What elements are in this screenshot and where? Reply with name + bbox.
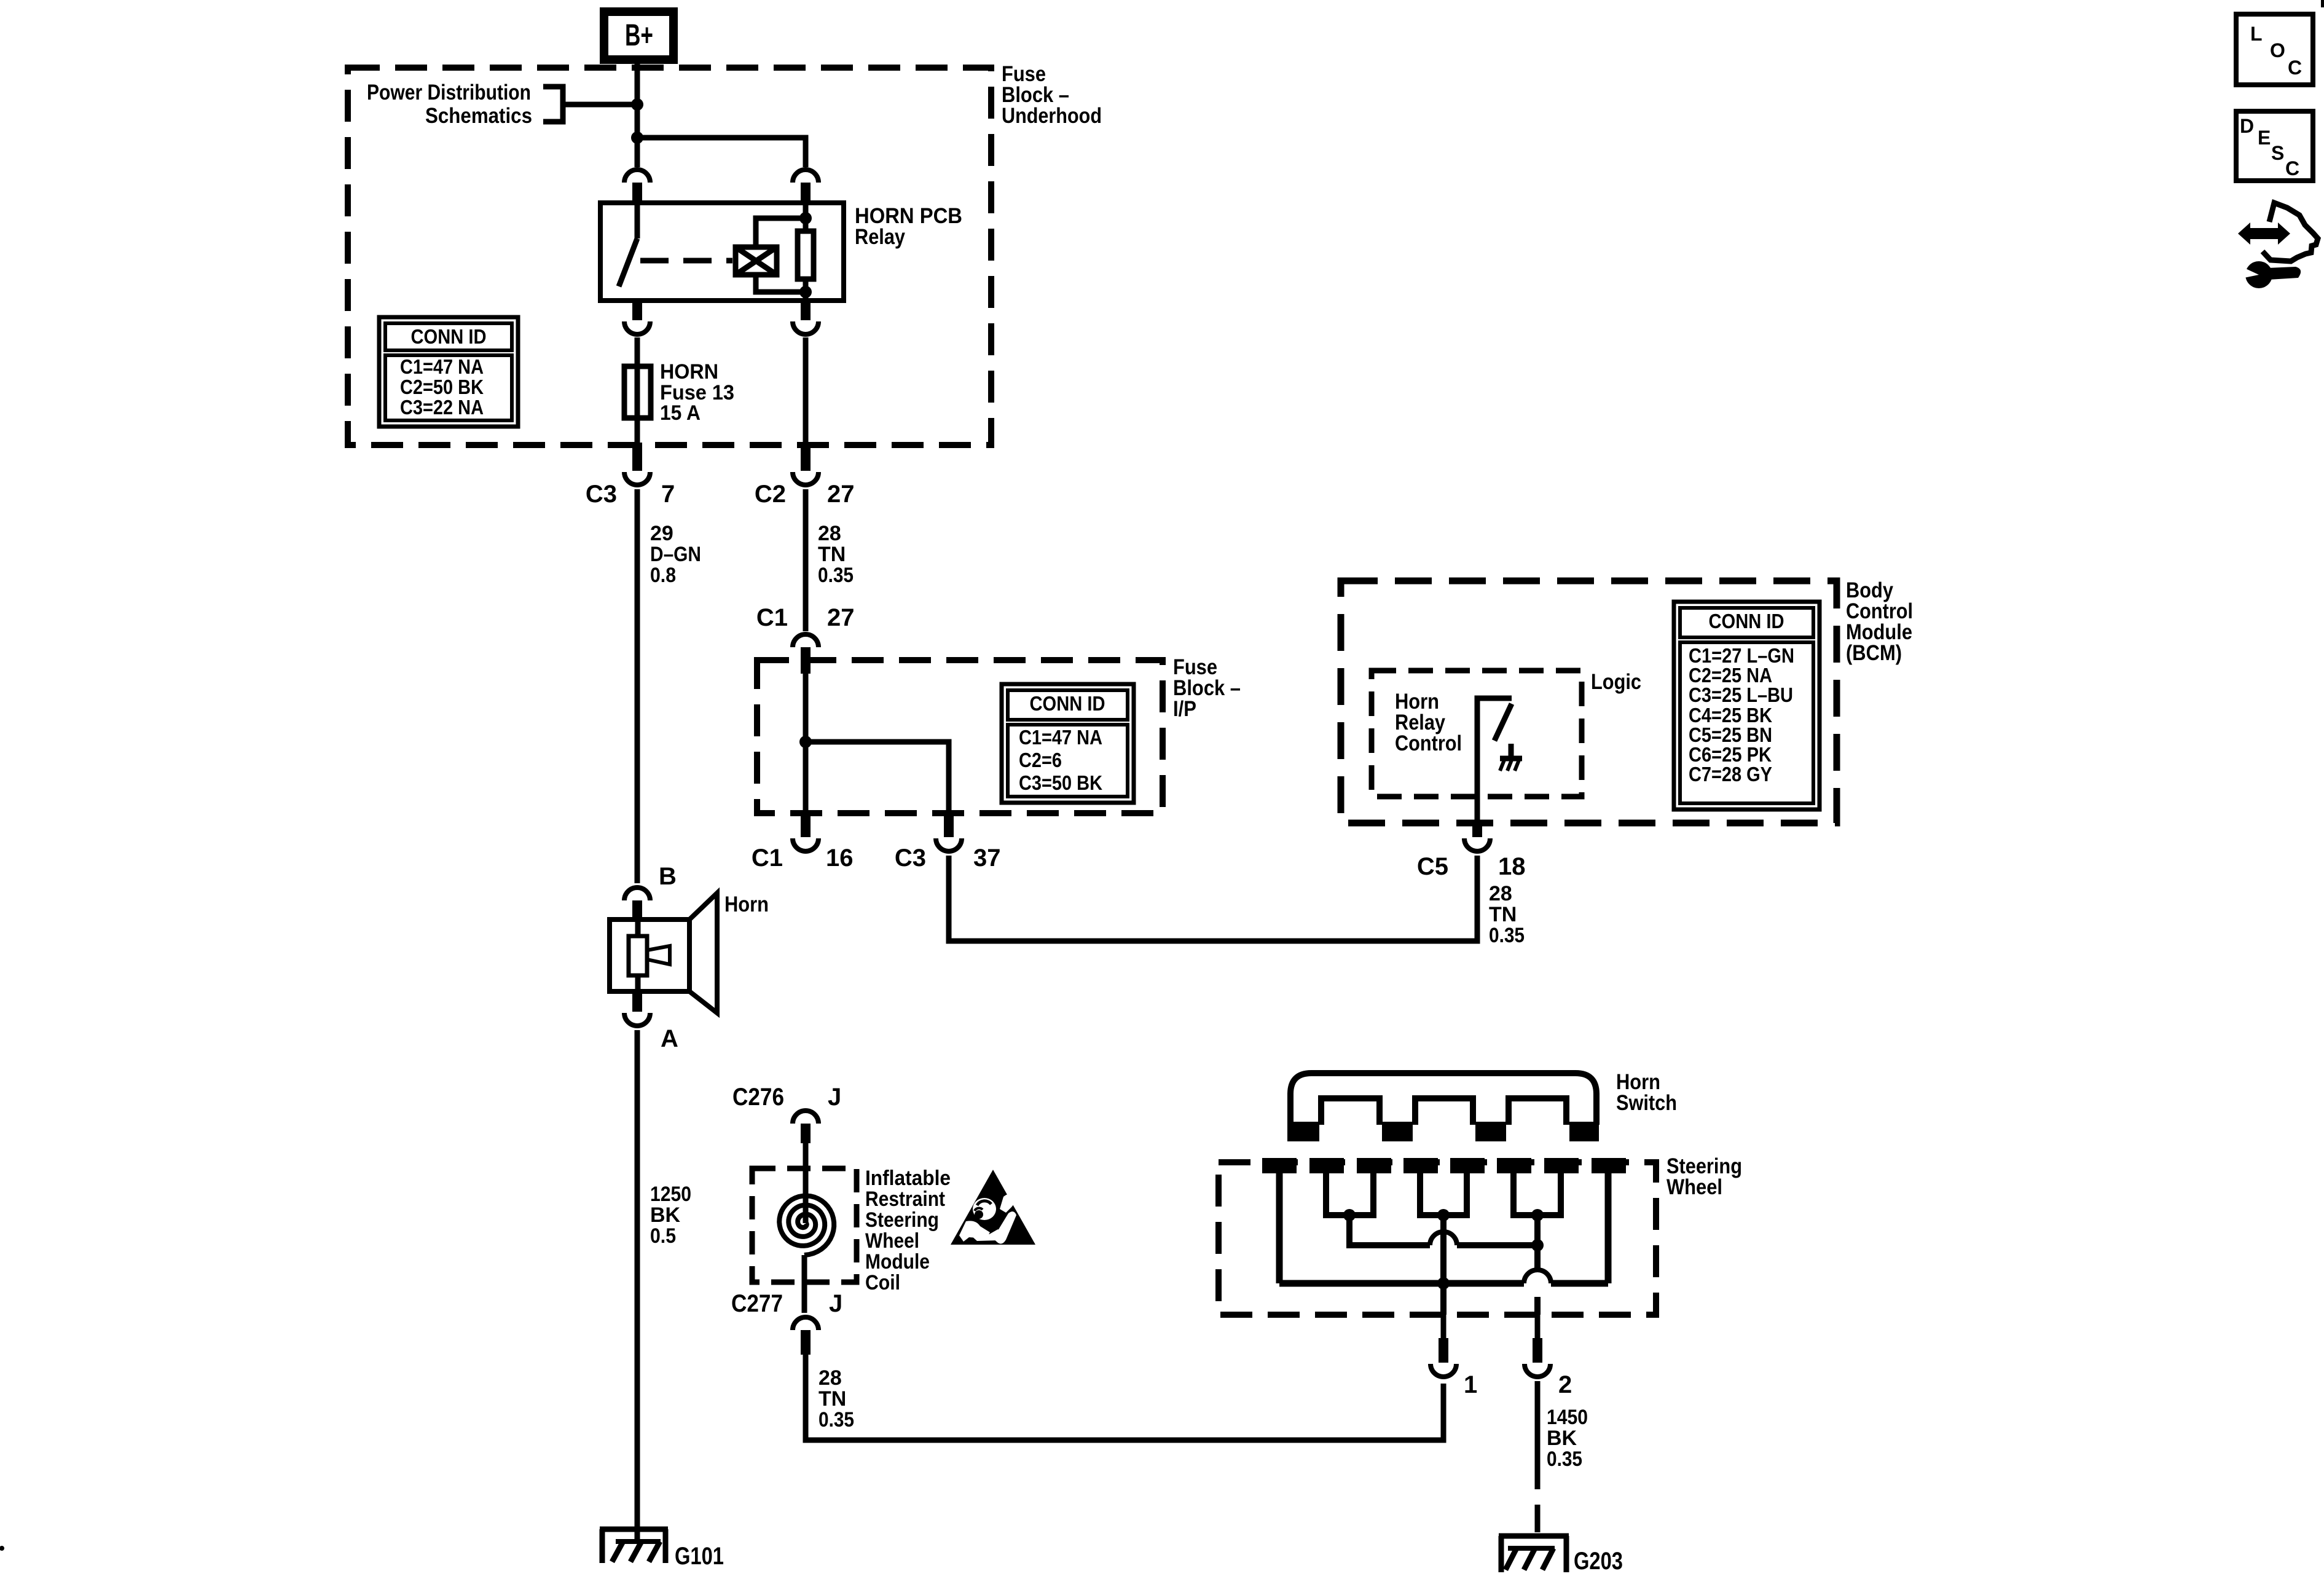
svg-text:C3=22 NA: C3=22 NA [400,396,484,419]
svg-text:Logic: Logic [1591,670,1641,694]
svg-text:CONN ID: CONN ID [411,325,487,348]
relay coil suppression resistor [798,231,814,279]
svg-text:C: C [2285,157,2299,179]
svg-text:C2=6: C2=6 [1019,749,1062,771]
warning symbol SRS airbag triangle [951,1170,1035,1245]
wire into coil [803,1143,809,1223]
relay HORN PCB Relay box [600,203,844,301]
label Fuse Block I/P [1173,655,1241,721]
svg-text:15 A: 15 A [660,401,701,425]
svg-text:Relay: Relay [855,225,905,249]
label Body Control Module (BCM) [1846,578,1913,665]
svg-text:C2=50 BK: C2=50 BK [400,376,484,398]
wire 1450 BK 0.35 to G203 [1535,1381,1541,1462]
svg-text:0.35: 0.35 [819,1408,854,1431]
svg-text:BK: BK [650,1203,681,1227]
svg-text:C5: C5 [1417,853,1448,880]
horn sounder symbol [610,893,717,1013]
wire upper bus with hop [1349,1215,1537,1245]
wire 28 TN 0.35 C2 to C1 [803,489,809,631]
label C2 27 [755,481,855,508]
svg-text:Underhood: Underhood [1002,104,1102,128]
wire B+ to relay coil/contact feed [635,60,640,167]
value label circuit 1450 BK 0.35 [1547,1406,1588,1471]
svg-text:Wheel: Wheel [865,1229,919,1253]
svg-text:L: L [2250,23,2263,45]
connector C276 pin J [793,1111,819,1143]
ground G101 [600,1529,668,1563]
label Fuse Block Underhood [1002,62,1102,128]
svg-text:B: B [659,863,677,890]
svg-text:C3=50 BK: C3=50 BK [1019,771,1102,794]
icon LOC box [2236,14,2313,85]
svg-text:C7=28 GY: C7=28 GY [1689,763,1772,786]
svg-text:C3: C3 [586,481,617,508]
wire bracket to B+ feed [563,102,637,108]
power node B+ [604,12,673,60]
svg-text:CONN ID: CONN ID [1030,692,1105,715]
svg-text:O: O [2270,39,2285,61]
node I/P branch junction [799,736,812,748]
wire fuse to C3 [635,418,640,444]
stray mark bottom left [0,1546,4,1551]
svg-text:Coil: Coil [865,1271,900,1294]
label Horn Switch [1616,1070,1677,1115]
svg-text:27: 27 [827,604,855,631]
wire resistor bottom leg [803,279,809,301]
svg-text:I/P: I/P [1173,697,1196,721]
svg-text:28: 28 [1489,882,1512,905]
svg-text:Wheel: Wheel [1666,1175,1722,1199]
node lower bus to pin1 drop [1437,1277,1450,1290]
svg-text:D–GN: D–GN [650,543,701,566]
svg-text:C1: C1 [756,604,788,631]
label Steering Wheel [1666,1154,1742,1199]
hop over wire 2 [1524,1270,1551,1283]
svg-text:7: 7 [661,481,675,508]
svg-text:C1=47 NA: C1=47 NA [1019,726,1102,749]
label HORN PCB Relay [855,204,962,249]
svg-text:Steering: Steering [865,1208,939,1232]
fuse HORN Fuse 13 15A [624,366,651,418]
label C3 37 [895,845,1001,872]
label C3 7 [586,481,675,508]
svg-text:C3=25 L–BU: C3=25 L–BU [1689,683,1793,706]
horn switch contact bar [1287,1073,1599,1141]
svg-text:C1=47 NA: C1=47 NA [400,355,484,378]
svg-text:BK: BK [1547,1427,1577,1450]
svg-text:29: 29 [650,522,673,545]
connector C1 pin 27 into IP fuse block [793,634,819,674]
connector relay pin 30 (top left) [624,170,650,204]
node junction relay feed branch [631,132,643,144]
svg-text:1450: 1450 [1547,1406,1588,1429]
body control module dashed boundary [1341,581,1837,823]
svg-text:S: S [2271,142,2284,164]
svg-text:B+: B+ [625,18,653,52]
svg-text:C1: C1 [752,845,783,872]
svg-text:C2: C2 [755,481,786,508]
wire coil top link [756,218,806,247]
wire 1250 BK 0.5 horn to G101 [635,1030,640,1540]
relay switch contact [619,204,637,286]
svg-text:1: 1 [1464,1371,1477,1398]
svg-text:28: 28 [818,522,841,545]
wire C277 run to steering wheel pin 1 [806,1355,1443,1440]
connector steering wheel pin 1 [1431,1315,1456,1377]
svg-text:HORN: HORN [660,360,718,384]
wire branch to relay coil side [637,138,806,167]
connector C3 pin 7 [624,443,650,485]
svg-text:C276: C276 [732,1084,784,1111]
bracket Power Distribution reference [543,87,563,122]
wire I/P branch to C3/37 [806,742,949,813]
inductor clockspring coil spiral [779,1196,834,1256]
wire pad8 stem [1605,1173,1612,1283]
label C276 J [732,1084,841,1111]
svg-text:2: 2 [1558,1371,1572,1398]
svg-text:C3: C3 [895,845,926,872]
svg-text:Power Distribution: Power Distribution [367,81,531,104]
value label circuit 29 D-GN 0.8 [650,522,701,587]
connector block CONN ID BCM [1674,602,1820,809]
label Power Distribution Schematics [367,81,532,128]
connector C1 pin 16 [793,812,819,851]
value label circuit 28 TN 0.35 (BCM) [1489,882,1525,947]
icon DESC box [2236,111,2313,181]
wire pin2 drop with hop over lower bus [1534,1215,1541,1315]
wire relay85 down to C2 [803,337,809,444]
svg-text:Module: Module [865,1250,930,1274]
connector block CONN ID underhood [379,317,518,427]
logic block dashed boundary [1372,671,1582,797]
wire pin1 drop [1440,1215,1447,1315]
connector steering wheel pin 2 [1525,1315,1550,1377]
wire relay to fuse [635,337,640,366]
svg-text:J: J [828,1084,841,1111]
svg-text:27: 27 [827,481,855,508]
svg-text:CONN ID: CONN ID [1709,610,1784,632]
wire pad1 stem [1276,1173,1283,1283]
wire out of coil [802,1255,807,1313]
svg-text:TN: TN [819,1387,846,1411]
steering wheel dashed boundary [1219,1162,1656,1315]
svg-text:G203: G203 [1574,1548,1623,1575]
value label circuit 1250 BK 0.5 [650,1183,691,1248]
svg-text:18: 18 [1498,853,1526,880]
svg-text:0.35: 0.35 [1489,924,1525,947]
svg-text:0.35: 0.35 [1547,1447,1582,1471]
node relay coil/resistor bottom junction [799,286,812,298]
wire pads 2+3 pair [1326,1173,1373,1215]
hop over wire 1 [1430,1232,1457,1245]
svg-text:TN: TN [1489,903,1517,926]
node pads 6+7 junction [1531,1209,1544,1221]
label C1 27 [756,604,855,631]
svg-text:16: 16 [826,845,854,872]
fuse block underhood dashed boundary [348,68,991,445]
svg-text:Switch: Switch [1616,1091,1677,1115]
page edge mark [2321,0,2324,7]
label Horn Relay Control [1395,690,1462,755]
svg-text:D: D [2240,115,2254,137]
relay coil (box with X) [736,247,777,275]
wire relay internal right leg [803,204,809,231]
node relay coil/resistor top junction [799,212,812,224]
node junction power-distribution tap [631,98,643,111]
node pads 2+3 junction [1343,1209,1356,1221]
steering wheel slip contacts (8 pads) [1262,1158,1626,1173]
wire dashed continuation to G203 [1535,1462,1541,1548]
label Inflatable Restraint Steering Wheel Module Coil [865,1167,951,1294]
wire C3/37 run to BCM C5 [949,856,1477,941]
fuse block I/P dashed boundary [757,660,1163,813]
svg-text:C: C [2288,57,2302,79]
svg-text:(BCM): (BCM) [1846,641,1902,665]
connector relay pin 87 (bottom left) [624,299,650,334]
svg-text:1250: 1250 [650,1183,691,1206]
svg-text:28: 28 [819,1366,842,1390]
connector C5 pin 18 [1464,822,1490,851]
connector block CONN ID I/P [1002,684,1134,803]
connector relay pin 85 (bottom right) [793,299,819,334]
wire 29 D-GN 0.8 to horn [635,489,640,883]
connector horn terminal A [624,990,650,1026]
relay actuation dashed link [640,258,732,264]
value label circuit 28 TN 0.35 (upper) [818,522,854,587]
svg-text:0.35: 0.35 [818,564,854,587]
icon component locator (arrow + part + wrench) [2238,203,2318,288]
wire I/P internal bus [803,674,809,813]
svg-text:0.5: 0.5 [650,1224,676,1248]
svg-text:Schematics: Schematics [425,104,532,128]
svg-text:0.8: 0.8 [650,564,676,587]
svg-text:Inflatable: Inflatable [865,1167,951,1190]
value label circuit 28 TN 0.35 (coil) [819,1366,854,1431]
connector horn terminal B [624,888,650,921]
SRS steering wheel module coil dashed boundary [752,1168,857,1282]
node pads 4+5 junction [1437,1209,1450,1221]
label C277 J [731,1290,842,1317]
svg-text:Horn: Horn [724,892,769,916]
svg-text:C277: C277 [731,1290,783,1317]
transistor driver horn relay control switch [1477,698,1522,823]
label C1 16 [752,845,854,872]
wire lower bus [1279,1280,1608,1287]
svg-text:TN: TN [818,543,846,566]
ground G203 [1499,1536,1569,1572]
svg-text:J: J [829,1290,842,1317]
connector C3 pin 37 [936,812,962,851]
node upper bus to pin2 drop [1531,1239,1544,1251]
wire coil bottom link [756,275,806,292]
svg-text:G101: G101 [675,1543,724,1570]
label HORN Fuse 13 15 A [660,360,734,425]
connector C2 pin 27 [793,443,819,485]
svg-text:E: E [2258,127,2271,149]
svg-text:Control: Control [1395,731,1462,755]
svg-text:A: A [661,1025,678,1052]
svg-text:37: 37 [973,845,1001,872]
connector C277 pin J [793,1317,819,1355]
label C5 18 [1417,853,1526,880]
connector relay pin 86 (top right) [793,170,819,204]
wire pads 6+7 pair [1513,1173,1561,1215]
wire pads 4+5 pair [1420,1173,1467,1215]
svg-text:Restraint: Restraint [865,1187,945,1211]
